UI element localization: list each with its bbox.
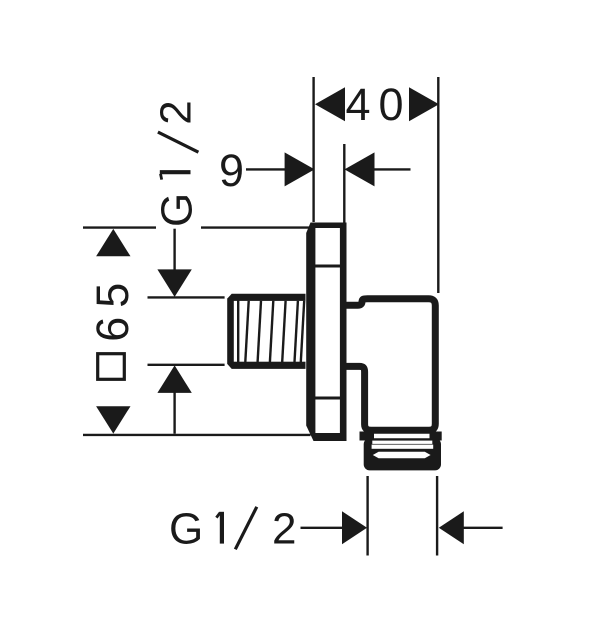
svg-text:9: 9 <box>219 145 244 196</box>
svg-text:2: 2 <box>272 505 296 554</box>
svg-text:65: 65 <box>87 274 138 342</box>
svg-text:G: G <box>169 505 203 554</box>
svg-text:40: 40 <box>346 79 412 130</box>
svg-text:G: G <box>153 193 202 227</box>
svg-text:2: 2 <box>152 100 201 124</box>
